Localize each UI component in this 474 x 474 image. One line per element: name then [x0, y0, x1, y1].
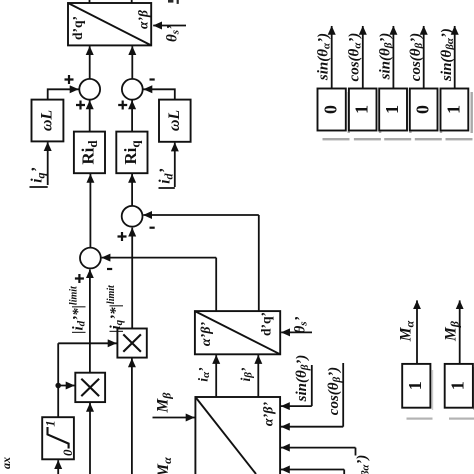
- svg-text:α’β’: α’β’: [199, 322, 214, 347]
- svg-text:1: 1: [443, 105, 463, 114]
- svg-text:sin(θβα’): sin(θβα’): [439, 28, 456, 82]
- svg-text:d’q’: d’q’: [259, 312, 274, 336]
- svg-text:sin(θβ’): sin(θβ’): [378, 33, 395, 81]
- svg-text:1: 1: [352, 105, 372, 114]
- svg-text:sin(θα’): sin(θα’): [316, 33, 333, 81]
- svg-text:0: 0: [321, 105, 341, 114]
- svg-text:1: 1: [43, 420, 58, 427]
- svg-text:ωL: ωL: [39, 110, 56, 132]
- svg-text:0: 0: [413, 105, 433, 114]
- svg-text:sin(θβ’): sin(θβ’): [294, 355, 311, 403]
- svg-text:ax: ax: [0, 457, 13, 469]
- svg-text:α’β: α’β: [136, 10, 151, 29]
- svg-text:d’q’: d’q’: [70, 16, 85, 40]
- svg-text:cos(θβ’): cos(θβ’): [408, 33, 425, 81]
- svg-text:1: 1: [448, 381, 468, 390]
- svg-text:0: 0: [60, 449, 75, 456]
- svg-text:α’β’: α’β’: [262, 402, 277, 427]
- svg-text:ωL: ωL: [166, 110, 183, 132]
- svg-text:1: 1: [405, 381, 425, 390]
- svg-text:cos(θβ’): cos(θβ’): [326, 367, 343, 415]
- svg-text:1: 1: [382, 105, 402, 114]
- svg-text:cos(θα’): cos(θα’): [347, 33, 364, 82]
